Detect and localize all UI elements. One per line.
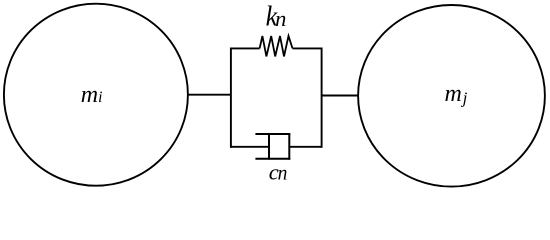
- svg-text:m: m: [81, 82, 98, 108]
- spring kn zigzag: [260, 36, 293, 56]
- wire left: circle mi to assembly: [188, 94, 232, 96]
- svg-text:n: n: [278, 164, 288, 185]
- top rail left segment: [230, 47, 260, 49]
- wire right: assembly to circle mj: [322, 95, 359, 97]
- svg-text:m: m: [445, 81, 462, 107]
- top rail right segment: [293, 47, 323, 49]
- bottom rail right segment: [289, 146, 322, 148]
- right bar of assembly: [321, 48, 323, 148]
- mass mi circle: [4, 4, 188, 186]
- damper piston plate: [268, 133, 270, 160]
- mass mj circle: [358, 5, 545, 187]
- bottom rail left segment (damper rod): [230, 146, 269, 148]
- damper cylinder bottom wall: [255, 158, 290, 160]
- svg-text:j: j: [461, 88, 468, 107]
- left bar of assembly: [230, 48, 232, 148]
- svg-text:n: n: [275, 6, 286, 31]
- damper cylinder top wall: [255, 133, 290, 135]
- damper cylinder right wall: [288, 133, 290, 160]
- svg-text:i: i: [98, 89, 102, 106]
